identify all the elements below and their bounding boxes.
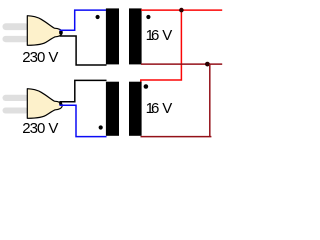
T2 secondary phase dot [144,84,149,89]
plug P2 prong lower [3,108,29,114]
wire black neutral: plug tip to T1 primary bottom [60,36,107,65]
wire blue phase: plug tip to T2 primary bottom [60,105,107,136]
label 230 V (top) [22,49,58,66]
transformer T1 primary winding bar [106,8,119,64]
svg-text:16 V: 16 V [146,27,173,44]
T1 primary phase dot [96,15,100,19]
T2 primary phase dot [99,125,103,129]
wire black neutral: plug tip to T2 primary top [60,80,107,101]
wire blue phase: plug tip to T1 primary top [60,10,107,30]
plug P2 body [27,89,62,119]
plug P2 prong upper [3,95,29,101]
label 230 V (bottom) [22,120,58,137]
svg-text:230 V: 230 V [22,49,58,66]
T1 secondary phase dot [146,15,150,19]
transformer T2 primary winding bar [106,82,119,136]
wire red vertical link to T2 secondary top [141,10,182,83]
wire red T1 secondary top net [141,9,222,11]
junction node B [205,62,210,67]
plug P1 tip contact blob [59,30,62,35]
plug P1 body [27,16,62,46]
plug P2 tip contact blob [59,101,62,106]
label 16 V (bottom) [146,100,173,117]
plug P1 prong upper [3,23,29,30]
label 16 V (top) [146,27,173,44]
transformer T2 secondary winding bar [129,82,142,136]
wire dark-red vertical to T2 secondary bottom [141,64,212,137]
plug P1 prong lower [3,36,29,42]
svg-text:16 V: 16 V [146,100,173,117]
junction node A [179,8,184,13]
svg-text:230 V: 230 V [22,120,58,137]
wire dark-red mid net from T1 secondary bottom [141,63,222,65]
transformer T1 secondary winding bar [129,8,142,64]
